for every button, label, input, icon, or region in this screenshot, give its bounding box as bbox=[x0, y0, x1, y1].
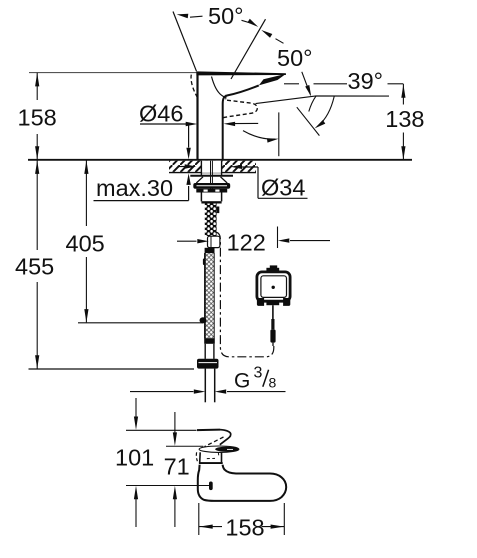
svg-text:Ø34: Ø34 bbox=[261, 175, 305, 201]
svg-text:101: 101 bbox=[115, 444, 154, 470]
svg-text:158: 158 bbox=[18, 105, 57, 131]
svg-text:3: 3 bbox=[254, 365, 263, 382]
svg-text:138: 138 bbox=[385, 106, 424, 132]
svg-text:50°: 50° bbox=[277, 45, 313, 71]
svg-text:50°: 50° bbox=[208, 3, 244, 29]
svg-text:71: 71 bbox=[164, 454, 190, 480]
svg-text:158: 158 bbox=[225, 514, 264, 540]
svg-text:8: 8 bbox=[269, 375, 277, 391]
svg-text:G: G bbox=[234, 370, 250, 393]
svg-text:455: 455 bbox=[15, 254, 54, 280]
svg-text:39°: 39° bbox=[348, 68, 384, 94]
svg-text:Ø46: Ø46 bbox=[139, 101, 183, 127]
svg-text:405: 405 bbox=[66, 231, 105, 257]
svg-text:122: 122 bbox=[227, 230, 266, 256]
svg-text:max.30: max.30 bbox=[96, 175, 173, 201]
